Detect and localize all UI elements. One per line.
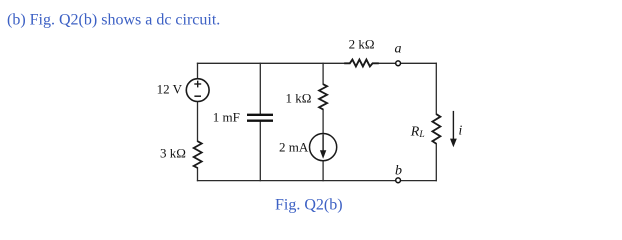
wire right branch lower — [435, 144, 437, 181]
node a terminal — [396, 61, 401, 66]
wire node a to top-right corner — [401, 62, 437, 64]
wire left branch bottom — [197, 168, 199, 181]
arrow of current source — [322, 134, 324, 152]
svg-text:2 mA: 2 mA — [279, 140, 309, 155]
wire top left segment — [198, 62, 346, 64]
voltage source V1 12 V — [186, 79, 209, 102]
capacitor C1 plates — [247, 115, 273, 121]
svg-text:(b) Fig. Q2(b) shows a dc circ: (b) Fig. Q2(b) shows a dc circuit. — [7, 12, 220, 29]
svg-text:RL: RL — [410, 124, 425, 140]
wire bottom left of node b — [198, 180, 396, 182]
resistor 1 kOhm — [319, 84, 327, 109]
svg-text:12 V: 12 V — [157, 82, 183, 97]
svg-text:2 kΩ: 2 kΩ — [349, 37, 375, 52]
wire 1k branch top — [322, 63, 324, 84]
wire bottom right of node b — [401, 180, 437, 182]
wire capacitor branch top — [259, 63, 261, 113]
node b terminal — [396, 178, 401, 183]
plus sign of source — [194, 81, 201, 88]
wire left branch middle — [197, 102, 199, 142]
wire top between resistor and node a — [379, 62, 396, 64]
wire 2mA branch bottom — [322, 161, 324, 181]
svg-text:b: b — [395, 164, 402, 179]
wire between 1k and current source — [322, 109, 324, 133]
svg-text:1 mF: 1 mF — [213, 110, 240, 125]
svg-text:3 kΩ: 3 kΩ — [160, 146, 186, 161]
resistor 2 kOhm horizontal — [344, 60, 379, 67]
resistor RL — [432, 114, 440, 144]
resistor 3 kOhm — [194, 141, 202, 168]
wire left branch top — [197, 63, 199, 78]
wire right branch upper — [435, 63, 437, 114]
minus sign of source — [194, 95, 201, 97]
svg-text:1 kΩ: 1 kΩ — [286, 90, 312, 105]
svg-text:i: i — [459, 122, 463, 137]
current source I1 2 mA — [310, 134, 337, 161]
wire capacitor branch bottom — [259, 122, 261, 181]
svg-text:a: a — [395, 42, 402, 57]
svg-text:Fig. Q2(b): Fig. Q2(b) — [275, 197, 343, 214]
current arrow i — [452, 111, 454, 140]
